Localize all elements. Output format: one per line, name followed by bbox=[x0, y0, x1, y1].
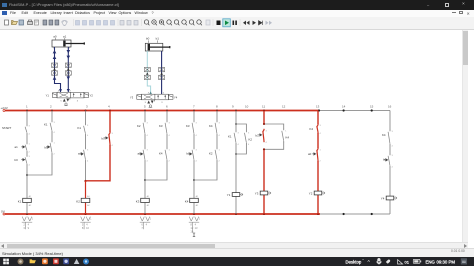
svg-text:3: 3 bbox=[29, 126, 31, 128]
svg-text:3: 3 bbox=[392, 131, 394, 133]
svg-text:2: 2 bbox=[54, 154, 56, 156]
wire rung 3 bbox=[85, 111, 87, 182]
svg-text:4: 4 bbox=[266, 142, 268, 144]
relay coil K3 bbox=[136, 195, 150, 207]
node 0V return rail bbox=[1, 209, 320, 215]
svg-text:8: 8 bbox=[82, 226, 84, 230]
tube cylinder-2A1 right pressurised bbox=[161, 51, 163, 94]
svg-text:3: 3 bbox=[147, 123, 149, 125]
svg-text:Y2: Y2 bbox=[90, 94, 94, 98]
taskbar bbox=[0, 257, 474, 266]
svg-text:3: 3 bbox=[266, 131, 268, 133]
svg-text:K4: K4 bbox=[185, 199, 189, 203]
svg-text:2: 2 bbox=[320, 161, 322, 163]
svg-text:3: 3 bbox=[54, 122, 56, 124]
svg-text:9: 9 bbox=[28, 226, 30, 230]
vertical scrollbar bbox=[462, 30, 468, 242]
svg-text:b0: b0 bbox=[102, 137, 106, 141]
svg-text:b0: b0 bbox=[383, 158, 387, 162]
svg-text:K1: K1 bbox=[18, 199, 22, 203]
svg-text:K3: K3 bbox=[136, 199, 140, 203]
contact K4 path6 bbox=[159, 148, 171, 163]
tube cylinder-1A1 left pressurised bbox=[53, 47, 61, 92]
svg-text:4: 4 bbox=[219, 135, 221, 137]
svg-text:4: 4 bbox=[320, 133, 322, 135]
svg-text:2: 2 bbox=[219, 161, 221, 163]
svg-text:1: 1 bbox=[54, 143, 56, 145]
svg-text:b0: b0 bbox=[146, 37, 150, 41]
svg-text:2: 2 bbox=[169, 161, 171, 163]
svg-text:4: 4 bbox=[196, 135, 198, 137]
svg-text:A2: A2 bbox=[29, 204, 32, 207]
svg-text:K2: K2 bbox=[137, 124, 141, 128]
svg-text:15: 15 bbox=[370, 105, 374, 109]
horizontal scrollbar bbox=[0, 242, 468, 249]
svg-text:K4: K4 bbox=[310, 127, 314, 131]
svg-text:ENG: ENG bbox=[426, 259, 436, 264]
svg-text:4: 4 bbox=[87, 161, 89, 163]
node current-path numbers 1..16 bbox=[26, 105, 392, 109]
mouse cursor bbox=[193, 233, 195, 236]
contact a1 path5 bbox=[138, 148, 149, 163]
contact K1 path9 bbox=[228, 131, 240, 146]
svg-text:4: 4 bbox=[86, 222, 88, 226]
svg-text:10: 10 bbox=[86, 226, 89, 230]
svg-text:5: 5 bbox=[60, 100, 62, 102]
svg-text:13: 13 bbox=[316, 105, 320, 109]
wire rung 6 bbox=[145, 111, 167, 181]
svg-text:7: 7 bbox=[141, 226, 143, 230]
svg-text:3: 3 bbox=[86, 105, 88, 109]
svg-text:Y4: Y4 bbox=[174, 96, 178, 100]
contact K3 path7 bbox=[186, 121, 198, 137]
contact K3 selfhold path6 bbox=[159, 121, 171, 137]
node rail junction dots bbox=[26, 109, 373, 215]
valve solenoid Y3 energised bbox=[255, 191, 271, 195]
svg-text:A2: A2 bbox=[147, 204, 150, 207]
svg-text:2: 2 bbox=[29, 152, 31, 154]
svg-text:K1: K1 bbox=[44, 123, 48, 127]
svg-text:3: 3 bbox=[23, 226, 25, 230]
svg-text:0V: 0V bbox=[1, 209, 6, 213]
svg-text:12: 12 bbox=[282, 105, 286, 109]
svg-text:K4: K4 bbox=[382, 133, 386, 137]
svg-text:A1: A1 bbox=[29, 195, 32, 198]
contact a0 closed path13 bbox=[308, 148, 322, 163]
switch START pushbutton path1 bbox=[2, 125, 31, 136]
svg-text:3: 3 bbox=[238, 133, 240, 135]
node junction rung5-rung6 bbox=[144, 179, 146, 181]
svg-text:4: 4 bbox=[248, 144, 250, 146]
wire parallel branch box paths 9-10 bbox=[235, 123, 246, 155]
svg-text:2: 2 bbox=[50, 105, 52, 109]
contact b0 closed path4 bbox=[102, 132, 114, 147]
svg-text:Y1: Y1 bbox=[227, 193, 231, 197]
title bar bbox=[0, 0, 474, 10]
svg-text:4: 4 bbox=[146, 222, 148, 226]
svg-text:6: 6 bbox=[166, 105, 168, 109]
contact K4 selfhold path8 bbox=[209, 121, 221, 137]
svg-text:b1: b1 bbox=[256, 134, 260, 138]
svg-text:4: 4 bbox=[28, 222, 30, 226]
svg-text:14: 14 bbox=[342, 105, 346, 109]
svg-text:a0: a0 bbox=[308, 152, 312, 156]
svg-text:3: 3 bbox=[196, 123, 198, 125]
svg-text:Y4: Y4 bbox=[381, 197, 385, 201]
contact K2 path10 bbox=[245, 131, 253, 146]
svg-text:a1: a1 bbox=[15, 145, 19, 149]
svg-text:a1: a1 bbox=[78, 152, 82, 156]
svg-text:A2: A2 bbox=[87, 204, 90, 207]
node junction rung7-rung8 bbox=[193, 179, 195, 181]
contact K2 path8 bbox=[209, 148, 221, 163]
svg-text:1: 1 bbox=[29, 144, 31, 146]
svg-text:5: 5 bbox=[145, 102, 147, 104]
svg-text:4: 4 bbox=[29, 134, 31, 136]
contact K4 path16 bbox=[382, 130, 394, 148]
svg-text:^: ^ bbox=[368, 260, 371, 266]
svg-text:A1: A1 bbox=[196, 195, 199, 198]
svg-text:3: 3 bbox=[87, 150, 89, 152]
svg-text:12: 12 bbox=[190, 226, 193, 230]
contact b1 path7 bbox=[187, 148, 198, 163]
svg-text:3: 3 bbox=[147, 150, 149, 152]
contact K1 path3 bbox=[78, 124, 90, 137]
svg-text:10: 10 bbox=[245, 105, 249, 109]
svg-text:3: 3 bbox=[77, 100, 79, 102]
svg-text:4: 4 bbox=[238, 144, 240, 146]
valve 2V1 5/2-way solenoids Y3 Y4 bbox=[130, 92, 178, 107]
svg-text:13: 13 bbox=[195, 226, 198, 230]
svg-text:11: 11 bbox=[262, 105, 265, 109]
tube cylinder-1A1 right pressurised bbox=[67, 47, 71, 92]
toolbar bbox=[0, 17, 474, 30]
svg-text:09:30 PM: 09:30 PM bbox=[437, 259, 456, 264]
svg-text:3: 3 bbox=[87, 125, 89, 127]
svg-text:✉: ✉ bbox=[462, 259, 466, 264]
contact b1 closed path11 bbox=[256, 129, 268, 144]
wire rung 13 energised bbox=[317, 111, 319, 215]
svg-text:5: 5 bbox=[144, 105, 146, 109]
svg-text:3: 3 bbox=[320, 125, 322, 127]
wire +24V rail grey segment bbox=[319, 110, 390, 112]
svg-text:9: 9 bbox=[232, 105, 234, 109]
contact table relay K1 bbox=[22, 217, 34, 230]
svg-text:A1: A1 bbox=[147, 195, 150, 198]
svg-text:3: 3 bbox=[219, 123, 221, 125]
svg-text:b0: b0 bbox=[15, 158, 19, 162]
node +24V supply rail bbox=[1, 106, 320, 112]
status bar bbox=[0, 248, 474, 257]
svg-text:1: 1 bbox=[26, 105, 28, 109]
svg-text:K2: K2 bbox=[209, 152, 213, 156]
svg-text:A1: A1 bbox=[87, 195, 90, 198]
wire rung 2 bbox=[28, 111, 53, 176]
wire rung 16 bbox=[389, 111, 391, 215]
svg-text:4: 4 bbox=[87, 135, 89, 137]
svg-text:b0: b0 bbox=[45, 146, 49, 150]
menu bar bbox=[0, 10, 474, 17]
svg-text:4: 4 bbox=[169, 135, 171, 137]
valve solenoid Y4 bbox=[381, 196, 397, 200]
port arrow valve 1V1 port 4 bbox=[59, 89, 62, 92]
svg-text:”: ” bbox=[363, 258, 365, 263]
flow control valve 2V3 bbox=[159, 67, 165, 79]
contact K1 selfhold path2 bbox=[44, 121, 56, 134]
node junction rung3-rung4 energised bbox=[84, 180, 86, 182]
svg-text:4: 4 bbox=[196, 161, 198, 163]
sensor label a0 bbox=[53, 34, 57, 40]
svg-text:3: 3 bbox=[29, 156, 31, 158]
contact K4 path12 bbox=[282, 129, 290, 142]
contact K4 closed path13 bbox=[310, 124, 322, 135]
svg-text:K1: K1 bbox=[228, 135, 232, 139]
svg-text:2: 2 bbox=[23, 222, 25, 226]
contact table relay K4 bbox=[189, 217, 201, 234]
relay coil K4 bbox=[185, 195, 199, 207]
valve solenoid Y1 bbox=[227, 193, 243, 197]
svg-text:4: 4 bbox=[147, 135, 149, 137]
svg-text:3: 3 bbox=[161, 102, 163, 104]
svg-text:5: 5 bbox=[82, 222, 84, 226]
svg-text:3: 3 bbox=[392, 155, 394, 157]
port arrow valve 2V1 port 4 bbox=[149, 91, 152, 94]
svg-text:b1: b1 bbox=[187, 152, 191, 156]
svg-text:K4: K4 bbox=[159, 152, 163, 156]
contact a1 limit path1 bbox=[15, 143, 31, 154]
wire 0V rail grey segment bbox=[320, 213, 390, 215]
svg-text:4: 4 bbox=[108, 105, 110, 109]
flow control valve 2V2 bbox=[144, 67, 150, 79]
svg-text:3: 3 bbox=[169, 123, 171, 125]
sensor label a1 bbox=[63, 34, 67, 40]
valve 1V1 5/2-way solenoids Y1 Y2 bbox=[46, 91, 94, 106]
svg-text:4: 4 bbox=[392, 146, 394, 148]
sensor label b1 bbox=[156, 37, 160, 43]
svg-text:4: 4 bbox=[195, 222, 197, 226]
contact table relay K3 bbox=[140, 217, 152, 230]
svg-text:K2: K2 bbox=[76, 199, 80, 203]
wire rung 4 energised bbox=[109, 111, 111, 133]
wire energised to coil K2 bbox=[85, 181, 87, 214]
svg-text:1: 1 bbox=[150, 218, 152, 221]
svg-text:3: 3 bbox=[112, 133, 114, 135]
svg-text:Y1: Y1 bbox=[46, 94, 50, 98]
svg-text:1: 1 bbox=[219, 150, 221, 152]
svg-text:3: 3 bbox=[196, 150, 198, 152]
contact K2 path5 bbox=[137, 121, 149, 137]
svg-text:4: 4 bbox=[29, 165, 31, 167]
svg-text:1: 1 bbox=[285, 131, 287, 133]
svg-text:1: 1 bbox=[199, 218, 201, 221]
wire parallel branch box paths 11-12 bbox=[263, 123, 284, 150]
node junction rung1-rung2 bbox=[26, 174, 28, 176]
valve solenoid Y2 energised bbox=[309, 191, 325, 195]
relay coil K1 bbox=[18, 195, 32, 207]
wire rung 1 bbox=[26, 111, 28, 215]
svg-text:START: START bbox=[2, 126, 11, 130]
svg-text:K2: K2 bbox=[249, 138, 253, 142]
wire rung 7 bbox=[193, 111, 195, 215]
svg-text:3: 3 bbox=[248, 133, 250, 135]
svg-text:K1: K1 bbox=[78, 126, 82, 130]
svg-text:A2: A2 bbox=[196, 204, 199, 207]
svg-text:Y3: Y3 bbox=[130, 96, 134, 100]
svg-text:16: 16 bbox=[388, 105, 392, 109]
svg-text:+24V: +24V bbox=[1, 106, 9, 110]
svg-text:a1: a1 bbox=[138, 152, 142, 156]
contact table relay K2 bbox=[80, 217, 92, 230]
svg-text:1: 1 bbox=[32, 218, 34, 221]
svg-text:4: 4 bbox=[112, 145, 114, 147]
svg-text:Y3: Y3 bbox=[255, 192, 259, 196]
svg-text:01: 01 bbox=[405, 259, 410, 264]
svg-text:a1: a1 bbox=[63, 34, 67, 38]
svg-text:6: 6 bbox=[141, 222, 143, 226]
svg-text:Y2: Y2 bbox=[309, 192, 313, 196]
contact b0 path2 bbox=[45, 141, 56, 156]
svg-text:Desktop: Desktop bbox=[346, 259, 362, 264]
wire rung 11 energised bbox=[263, 111, 265, 215]
wire rung 8 bbox=[194, 111, 217, 181]
wire rung 5 bbox=[144, 111, 146, 215]
svg-text:1: 1 bbox=[320, 150, 322, 152]
cylinder 1A1 double-acting extended bbox=[52, 40, 84, 48]
sensor label b0 bbox=[146, 37, 150, 43]
svg-text:7: 7 bbox=[193, 105, 195, 109]
cylinder 2A1 double-acting retracted bbox=[145, 43, 170, 52]
contact b0 path16 bbox=[383, 154, 394, 169]
wire rung 4 corner to rung 3 bbox=[86, 145, 111, 181]
relay coil K2 energised bbox=[76, 195, 90, 207]
svg-text:1: 1 bbox=[169, 150, 171, 152]
svg-text:4: 4 bbox=[147, 161, 149, 163]
contact a1 path3 bbox=[78, 148, 89, 163]
svg-text:1: 1 bbox=[90, 218, 92, 221]
flow control valve 1V3 bbox=[65, 63, 71, 75]
svg-text:4: 4 bbox=[392, 167, 394, 169]
svg-text:8: 8 bbox=[216, 105, 218, 109]
svg-text:K3: K3 bbox=[186, 124, 190, 128]
svg-text:K4: K4 bbox=[209, 124, 213, 128]
tube cylinder-2A1 left exhausted bbox=[147, 51, 150, 94]
svg-text:8: 8 bbox=[190, 222, 192, 226]
flow control valve 1V2 bbox=[52, 63, 58, 75]
svg-text:4: 4 bbox=[54, 132, 56, 134]
svg-text:b1: b1 bbox=[156, 37, 160, 41]
svg-text:a0: a0 bbox=[53, 34, 57, 38]
wire rung 9 bbox=[235, 111, 237, 215]
contact b0 limit path1 bbox=[15, 155, 31, 166]
svg-text:K4: K4 bbox=[286, 136, 290, 140]
svg-text:K3: K3 bbox=[159, 124, 163, 128]
